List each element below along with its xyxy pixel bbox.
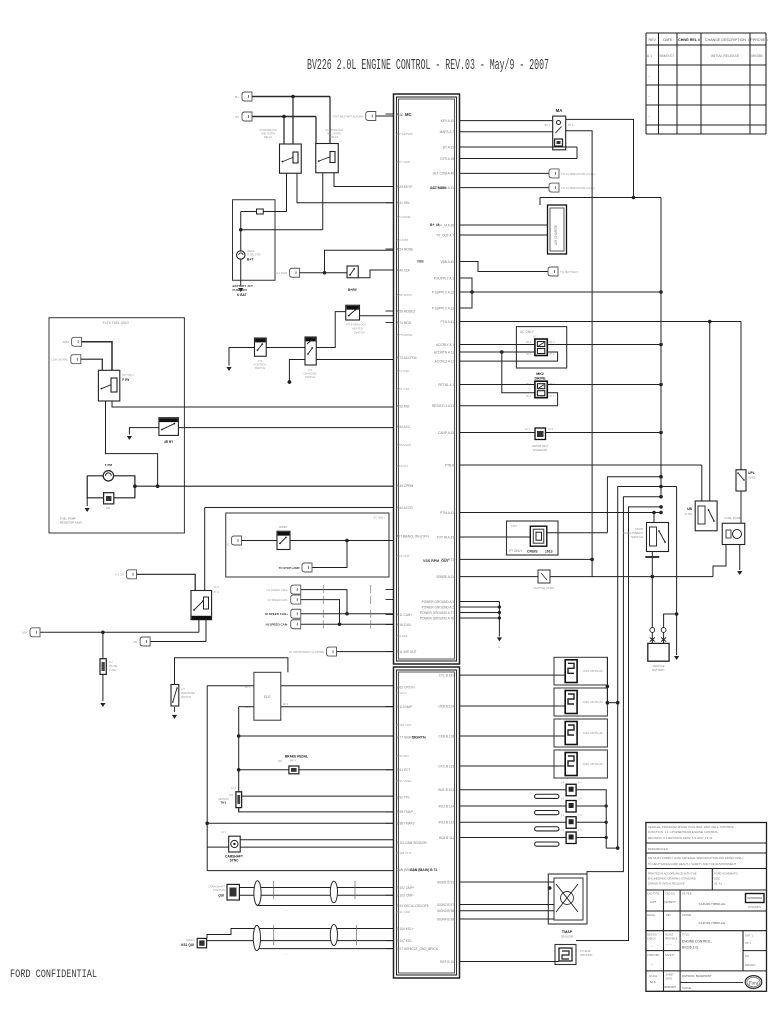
svg-text:CAD TYPE: CAD TYPE [647, 893, 660, 896]
svg-text:A 29 KEYP: A 29 KEYP [397, 185, 413, 189]
svg-text:12 4: 12 4 [221, 831, 226, 834]
svg-text:TO ALTERNATOR (CH L): TO ALTERNATOR (CH L) [561, 186, 595, 190]
svg-text:A IT BRAKE ON (OFF): A IT BRAKE ON (OFF) [397, 535, 429, 539]
svg-text:ELE: ELE [264, 695, 271, 699]
svg-text:1013: 1013 [545, 550, 553, 554]
svg-text:SIGN4 B 99: SIGN4 B 99 [437, 917, 454, 921]
svg-text:FRAME:: FRAME: [682, 986, 692, 990]
svg-text:B 91 OSCILLOSCOPE: B 91 OSCILLOSCOPE [397, 904, 429, 908]
svg-text:A 1 SGR: A 1 SGR [276, 271, 287, 275]
svg-text:LO SPEED CAN-: LO SPEED CAN- [267, 598, 288, 602]
svg-text:B 111 CAM SENSOR: B 111 CAM SENSOR [397, 841, 428, 845]
svg-text:A 54 MODE: A 54 MODE [397, 247, 414, 251]
svg-text:SCALE: SCALE [649, 975, 658, 978]
svg-text:B 41 GND: B 41 GND [397, 910, 412, 914]
svg-text:SWITCH: SWITCH [181, 696, 191, 699]
svg-text:B 98 TMAP2: B 98 TMAP2 [397, 822, 415, 826]
svg-text:2 4: 2 4 [578, 814, 582, 817]
svg-text:B 92 TP1: B 92 TP1 [397, 795, 410, 799]
svg-text:P.SUPPLY A 1: P.SUPPLY A 1 [434, 276, 454, 280]
svg-text:REF B 10: REF B 10 [440, 960, 454, 964]
svg-text:MK2: MK2 [536, 372, 544, 376]
svg-text:B 103 CMP-: B 103 CMP- [397, 894, 414, 898]
svg-text:FORD SCHEMATIC: FORD SCHEMATIC [714, 872, 738, 876]
svg-text:COIL ON PLUG: COIL ON PLUG [583, 762, 603, 766]
svg-text:VSS RPM_OUT: VSS RPM_OUT [423, 559, 450, 563]
svg-text:ENGINEERING DRAWING STANDARD: ENGINEERING DRAWING STANDARD [648, 877, 696, 881]
svg-text:-----: ----- [284, 953, 288, 956]
svg-text:B 101 CKP: B 101 CKP [397, 723, 412, 727]
svg-text:1 4: 1 4 [559, 748, 563, 752]
svg-text:UB: UB [687, 507, 692, 511]
svg-text:VBB: VBB [417, 260, 424, 264]
svg-text:FUNCTION: 1.1.1 POWERTRAIN EN: FUNCTION: 1.1.1 POWERTRAIN ENGINE CONTRO… [648, 830, 719, 834]
svg-text:P.SUPPLY A 13: P.SUPPLY A 13 [432, 306, 454, 310]
svg-text:12 4: 12 4 [231, 787, 236, 790]
svg-text:SOLENOID: SOLENOID [533, 448, 547, 452]
svg-text:DATE: DATE [666, 978, 673, 981]
svg-text:AC: AC [533, 335, 537, 339]
svg-text:SHT 1: SHT 1 [745, 934, 753, 938]
svg-text:CHECK: CHECK [647, 938, 656, 941]
svg-text:1 4: 1 4 [561, 814, 565, 817]
svg-text:NTS: NTS [650, 980, 656, 984]
svg-text:CHECKED: CHECKED [647, 954, 659, 957]
svg-text:LAB: LAB [22, 631, 27, 635]
svg-text:BRAKE PEDAL: BRAKE PEDAL [285, 755, 308, 759]
svg-text:MAPS A 7: MAPS A 7 [440, 130, 455, 134]
svg-text:FLEX FUEL ONLY: FLEX FUEL ONLY [103, 321, 130, 325]
svg-text:A 52 KS1: A 52 KS1 [397, 404, 411, 408]
svg-text:ACCRL2 A 11: ACCRL2 A 11 [435, 359, 455, 363]
svg-text:DTR A 15: DTR A 15 [440, 157, 454, 161]
svg-text:B 12 IN: B 12 IN [397, 691, 407, 695]
svg-text:TO ALTERNATOR (CH L): TO ALTERNATOR (CH L) [561, 172, 595, 176]
svg-text:SIGN3 B 98: SIGN3 B 98 [437, 909, 454, 913]
svg-text:4*4: 4*4 [308, 368, 312, 372]
svg-text:PROVINCE: PROVINCE [665, 938, 678, 941]
svg-text:A 35 EVAP: A 35 EVAP [397, 443, 412, 447]
svg-text:RESISTL1 A 11: RESISTL1 A 11 [432, 404, 454, 408]
svg-text:15 RADIUS: 15 RADIUS [748, 906, 761, 909]
svg-text:RELAY: RELAY [264, 135, 273, 139]
svg-text:B 61 ECT: B 61 ECT [397, 768, 411, 772]
svg-text:SWITCH: SWITCH [305, 375, 315, 379]
svg-text:PTB A: PTB A [445, 463, 455, 467]
svg-text:AIR CHARGE: AIR CHARGE [554, 225, 558, 245]
svg-text:TO BATTERY: TO BATTERY [560, 270, 579, 274]
svg-text:--: -- [648, 74, 650, 78]
svg-text:A 54 ACC: A 54 ACC [397, 425, 412, 429]
svg-text:AE FILE:: AE FILE: [682, 892, 693, 896]
svg-text:INJ3 B 112: INJ3 B 112 [438, 821, 454, 825]
svg-text:ST: ST [235, 115, 239, 119]
svg-text:SC ONLY: SC ONLY [373, 516, 385, 520]
svg-text:BATTERY: BATTERY [652, 668, 665, 672]
svg-text:TH1: TH1 [220, 801, 226, 805]
svg-text:F RY: F RY [122, 378, 130, 382]
svg-text:FORD CONFIDENTIAL: FORD CONFIDENTIAL [10, 969, 97, 981]
svg-text:A 12: A 12 [397, 112, 404, 116]
svg-text:A 13 ROM: A 13 ROM [397, 215, 411, 219]
svg-text:B+: B+ [235, 95, 239, 99]
svg-text:B 102 CMP+: B 102 CMP+ [397, 886, 415, 890]
svg-text:A 75 MODE: A 75 MODE [397, 333, 413, 337]
svg-text:MC: MC [405, 112, 412, 117]
svg-text:NOTEVT: NOTEVT [665, 900, 677, 904]
svg-text:CAD LVL: CAD LVL [665, 893, 676, 896]
svg-text:FUSE: FUSE [109, 668, 116, 672]
svg-text:U BAT: U BAT [237, 293, 247, 297]
svg-text:-----: ----- [284, 909, 288, 912]
svg-text:1 4: 1 4 [561, 798, 565, 801]
svg-text:1 4: 1 4 [559, 655, 563, 659]
svg-text:B 64 SIG: B 64 SIG [397, 754, 410, 758]
svg-text:--: -- [648, 114, 650, 118]
svg-text:B 62 CPS IN: B 62 CPS IN [397, 685, 416, 689]
svg-text:B 33 VREF: B 33 VREF [397, 779, 412, 783]
svg-text:B 97 VEHICLE_GND_BRICK: B 97 VEHICLE_GND_BRICK [397, 947, 439, 951]
svg-text:KS1 QUI: KS1 QUI [181, 943, 194, 947]
svg-text:B+_M A 30: B+_M A 30 [438, 223, 454, 227]
svg-text:2 4: 2 4 [578, 829, 582, 832]
svg-text:SIGN1 B 91: SIGN1 B 91 [437, 880, 454, 884]
svg-text:POWER GROUND A 77: POWER GROUND A 77 [420, 611, 454, 615]
svg-text:A 55 SCCS: A 55 SCCS [397, 293, 412, 297]
svg-text:RELAY: RELAY [330, 135, 339, 139]
svg-text:12 4: 12 4 [525, 427, 531, 431]
svg-text:COIL ON PLUG: COIL ON PLUG [583, 731, 603, 735]
svg-text:CHANGED: CHANGED [304, 372, 317, 376]
svg-text:30 4: 30 4 [526, 395, 531, 398]
svg-text:INJ2 B 114: INJ2 B 114 [438, 804, 454, 808]
svg-text:FPM: FPM [63, 340, 70, 344]
svg-text:2 4: 2 4 [578, 781, 582, 784]
svg-text:DT A 13: DT A 13 [443, 145, 455, 149]
svg-text:CHANGE DESCRIPTION: CHANGE DESCRIPTION [705, 38, 746, 42]
svg-text:BV226 2.0L ENGINE CONTROL - RE: BV226 2.0L ENGINE CONTROL - REV.03 - May… [307, 58, 549, 74]
svg-text:1 4: 1 4 [561, 781, 565, 784]
svg-text:9/MAY/07: 9/MAY/07 [660, 54, 675, 58]
svg-text:MA: MA [556, 108, 564, 113]
svg-text:SIGN2 B 97: SIGN2 B 97 [437, 903, 454, 907]
svg-text:B 99 TMAP: B 99 TMAP [397, 810, 413, 814]
svg-text:A 51 KS2: A 51 KS2 [397, 387, 410, 391]
svg-text:SC: SC [226, 543, 230, 547]
svg-text:WE MUST COMPLY WITH MATERIAL S: WE MUST COMPLY WITH MATERIAL SPECIFICATI… [648, 856, 744, 860]
svg-text:SYNC: SYNC [230, 859, 240, 863]
svg-text:VEHICLE_PROGRAM: BV226 TO: VEHICLE_PROGRAM: BV226 TOOL BAR: 2007 CE… [648, 825, 735, 829]
svg-text:B 107 KS1-: B 107 KS1- [397, 939, 413, 943]
svg-text:FRA EL: FRA EL [647, 914, 656, 917]
svg-text:A 56 MODE2: A 56 MODE2 [397, 309, 416, 313]
svg-text:85 4: 85 4 [526, 341, 531, 344]
svg-text:REVISION: A 1 REVISION DA: REVISION: A 1 REVISION DATE: 5-9-2007_13… [648, 836, 713, 840]
svg-text:OF 1: OF 1 [745, 941, 752, 945]
svg-text:FUSEBOX: FUSEBOX [233, 288, 248, 292]
svg-text:IAT: IAT [229, 793, 233, 797]
svg-text:APPROVED: APPROVED [748, 38, 768, 42]
svg-text:3-PT: 3-PT [650, 900, 656, 904]
svg-text:A 74 MOD: A 74 MOD [397, 321, 412, 325]
svg-text:HI SPEED CAN+: HI SPEED CAN+ [265, 612, 288, 616]
svg-text:1 4: 1 4 [559, 717, 563, 721]
svg-text:CAN (MAIN) B 73: CAN (MAIN) B 73 [410, 868, 437, 872]
svg-text:A 73 ACCPD4: A 73 ACCPD4 [397, 356, 417, 360]
svg-text:DESIGN: DESIGN [647, 934, 657, 937]
svg-text:B+T: B+T [247, 258, 254, 262]
svg-text:A 2 KAPWR: A 2 KAPWR [397, 132, 414, 136]
svg-text:87 4: 87 4 [214, 590, 220, 594]
svg-text:A 4 REF: A 4 REF [397, 634, 408, 638]
svg-text:SIZE: SIZE [714, 877, 720, 881]
svg-text:TMAP: TMAP [562, 930, 573, 934]
svg-text:B+_M: B+_M [430, 223, 439, 227]
svg-text:LOW SIGNAL: LOW SIGNAL [51, 358, 68, 362]
svg-text:B 110 MAP: B 110 MAP [397, 705, 413, 709]
svg-text:B 108 OUT: B 108 OUT [397, 851, 412, 855]
svg-text:SCALE: SCALE [665, 934, 674, 937]
svg-text:TX_OUT A 7: TX_OUT A 7 [436, 233, 454, 237]
svg-text:F PM: F PM [105, 463, 113, 467]
svg-text:4R RY: 4R RY [164, 440, 174, 444]
svg-text:CHNG REL #: CHNG REL # [678, 38, 700, 42]
svg-text:GROUND: GROUND [580, 953, 592, 957]
svg-text:POWER GROUND A 3: POWER GROUND A 3 [422, 600, 455, 604]
svg-text:30 4: 30 4 [214, 585, 220, 589]
svg-text:VBB A 41: VBB A 41 [441, 260, 455, 264]
svg-text:PT ONLY: PT ONLY [509, 549, 523, 553]
svg-text:P.SUPPLY A 12: P.SUPPLY A 12 [432, 290, 454, 294]
svg-text:REV: REV [666, 914, 671, 917]
svg-text:G: G [498, 645, 500, 649]
svg-text:MKB86: MKB86 [751, 54, 762, 58]
svg-text:COIL ON PLUG: COIL ON PLUG [583, 669, 603, 673]
svg-text:A.1: A.1 [647, 54, 652, 58]
svg-text:A 3 FPM: A 3 FPM [397, 238, 409, 242]
svg-text:B+RY: B+RY [348, 288, 358, 292]
svg-text:CONTROL: CONTROL [254, 363, 267, 367]
svg-text:FUSE 175A: FUSE 175A [247, 253, 261, 257]
svg-text:86 4: 86 4 [550, 341, 555, 344]
svg-text:SPEED: SPEED [279, 525, 288, 529]
svg-text:ENGINE CONTROL,: ENGINE CONTROL, [682, 940, 712, 944]
svg-text:B 104 KS1+: B 104 KS1+ [397, 927, 414, 931]
svg-text:TO STOP LAMP: TO STOP LAMP [279, 566, 300, 570]
svg-text:INJ4 B 111: INJ4 B 111 [439, 836, 455, 840]
svg-text:PTN A 41: PTN A 41 [441, 320, 455, 324]
svg-text:UPL: UPL [748, 471, 755, 475]
svg-text:CANP A 43: CANP A 43 [438, 431, 454, 435]
svg-text:DRAWN AT INITIAL RELEASE: DRAWN AT INITIAL RELEASE [648, 882, 685, 886]
svg-text:A 44 ACCR: A 44 ACCR [397, 506, 414, 510]
svg-text:34 4: 34 4 [548, 427, 554, 431]
svg-text:INITIAL RELEASE: INITIAL RELEASE [711, 54, 740, 58]
svg-text:2 4: 2 4 [578, 798, 582, 801]
svg-text:DATE: DATE [663, 38, 673, 42]
svg-text:HC: HC [106, 506, 110, 510]
svg-text:A 16 CAN-: A 16 CAN- [397, 623, 412, 627]
svg-text:A 11 INS OUT: A 11 INS OUT [397, 650, 417, 654]
svg-text:AND INTRN: AND INTRN [327, 132, 341, 136]
svg-text:RESISTOR ASSY: RESISTOR ASSY [60, 521, 82, 525]
svg-text:REV: REV [649, 38, 657, 42]
svg-text:SIGRTN: SIGRTN [412, 736, 426, 740]
svg-text:1 4: 1 4 [561, 829, 565, 832]
svg-text:ACCRLY A 1: ACCRLY A 1 [436, 343, 454, 347]
svg-text:KNOCK: KNOCK [186, 939, 195, 942]
svg-text:CKB B 118: CKB B 118 [438, 734, 454, 738]
svg-text:A 41 IGN: A 41 IGN [397, 201, 411, 205]
svg-text:POWER GROUND A 2: POWER GROUND A 2 [422, 605, 455, 609]
svg-text:A C: A C [181, 688, 185, 691]
svg-text:MEGA: MEGA [247, 249, 255, 253]
svg-text:SW: SW [278, 759, 283, 763]
svg-text:DRIVE: DRIVE [535, 377, 547, 381]
svg-text:PRESSURE: PRESSURE [181, 692, 195, 695]
svg-text:LO SPEED CAN+: LO SPEED CAN+ [267, 588, 289, 592]
svg-text:A 11 CAN+: A 11 CAN+ [397, 613, 413, 617]
svg-text:CKB B 124: CKB B 124 [438, 704, 454, 708]
svg-text:PTM A 41: PTM A 41 [440, 511, 454, 515]
svg-text:87 4: 87 4 [568, 123, 574, 127]
svg-text:---------: --------- [665, 943, 672, 946]
svg-text:REFERENCES:: REFERENCES: [648, 847, 669, 851]
svg-text:87 4: 87 4 [550, 395, 555, 398]
svg-text:ACDRTN A 11: ACDRTN A 11 [434, 350, 454, 354]
svg-text:4*4: 4*4 [258, 359, 262, 363]
svg-text:SHEET: SHEET [666, 974, 675, 977]
svg-text:ALT COM A 40: ALT COM A 40 [433, 172, 454, 176]
svg-text:HEATED: HEATED [352, 327, 363, 331]
svg-text:CRUIS: CRUIS [527, 550, 538, 554]
svg-text:ACT MON: ACT MON [430, 186, 446, 190]
svg-text:RETN1 A 1: RETN1 A 1 [438, 383, 454, 387]
svg-text:HI SPEED CAN-: HI SPEED CAN- [266, 623, 288, 627]
svg-text:FUSE: FUSE [685, 512, 692, 516]
svg-text:1 4: 1 4 [559, 686, 563, 690]
svg-text:COIL ON PLUG: COIL ON PLUG [583, 700, 603, 704]
svg-text:MK 4: MK 4 [290, 759, 297, 763]
svg-text:CKC B 115: CKC B 115 [438, 764, 454, 768]
svg-text:TO HELP SAFEGUARD HEALTH, SAFE: TO HELP SAFEGUARD HEALTH, SAFETY AND THE… [648, 862, 737, 866]
svg-text:QUI: QUI [218, 894, 224, 898]
svg-text:30 4: 30 4 [545, 123, 551, 127]
svg-text:--: -- [648, 94, 650, 98]
svg-text:A2- A1: A2- A1 [714, 882, 723, 886]
svg-text:DIVISION: BLUEPRINT: DIVISION: BLUEPRINT [682, 974, 712, 978]
svg-text:POSITION: POSITION [213, 889, 225, 892]
svg-text:SENSOR: SENSOR [561, 935, 575, 939]
svg-text:C14N15-T9550-AG: C14N15-T9550-AG [699, 902, 726, 906]
svg-text:TOT: TOT [511, 524, 517, 528]
svg-text:PRINTED IN ACCORDANCE WITH THE: PRINTED IN ACCORDANCE WITH THE [648, 872, 697, 876]
svg-text:--: -- [651, 962, 653, 966]
svg-text:CLUTCH_INTLK: CLUTCH_INTLK [534, 586, 555, 590]
svg-text:KEY A 10: KEY A 10 [441, 119, 455, 123]
svg-text:BV226 2.0L: BV226 2.0L [682, 946, 699, 950]
svg-text:TOT IN A 33: TOT IN A 33 [437, 535, 455, 539]
svg-text:AC ONLY: AC ONLY [520, 330, 535, 334]
svg-text:FUSE: FUSE [748, 476, 756, 480]
svg-text:TO INSTRUMENT CLUSTER: TO INSTRUMENT CLUSTER [289, 650, 324, 654]
svg-text:A 1 GA: A 1 GA [115, 573, 124, 577]
svg-text:CYL B 121: CYL B 121 [439, 673, 455, 677]
svg-text:TITLE:: TITLE: [682, 933, 690, 937]
svg-text:A 17 PSP: A 17 PSP [397, 369, 410, 373]
svg-text:Ford: Ford [748, 982, 759, 987]
svg-text:87 4: 87 4 [550, 353, 555, 356]
svg-text:SAFETY: SAFETY [665, 954, 675, 957]
svg-text:--: -- [651, 944, 653, 948]
svg-text:SWITCH: SWITCH [255, 366, 265, 370]
svg-text:30 4: 30 4 [526, 353, 531, 356]
svg-text:STARTER/IGN: STARTER/IGN [259, 128, 276, 132]
svg-text:C14N15-T9550-AG: C14N15-T9550-AG [699, 921, 726, 925]
svg-text:AB: AB [133, 640, 137, 644]
svg-text:A 1: A 1 [109, 660, 113, 664]
svg-text:FRAME:: FRAME: [682, 913, 692, 917]
svg-text:A 21 OUT: A 21 OUT [397, 554, 410, 558]
svg-text:A 40 CDF: A 40 CDF [397, 268, 411, 272]
svg-text:STAT RESTART ALTERN: STAT RESTART ALTERN [333, 114, 363, 118]
svg-text:09/05/2007: 09/05/2007 [664, 986, 677, 989]
svg-text:SPARE A 21: SPARE A 21 [436, 575, 454, 579]
svg-text:AND INTRN: AND INTRN [261, 132, 275, 136]
svg-text:INLINE: INLINE [109, 664, 118, 668]
svg-text:DRAWN: DRAWN [745, 963, 755, 967]
svg-text:SWITCH: SWITCH [354, 331, 365, 335]
svg-text:A 16 INJ: A 16 INJ [397, 464, 409, 468]
svg-text:NA: NA [745, 954, 749, 958]
svg-text:4*4 INTERLOCK: 4*4 INTERLOCK [346, 323, 366, 327]
svg-text:INJ1 B 121: INJ1 B 121 [438, 788, 454, 792]
svg-text:A 34 CPRM: A 34 CPRM [397, 484, 414, 488]
svg-text:SWITCH: SWITCH [631, 535, 643, 539]
svg-text:32 4: 32 4 [283, 702, 289, 706]
svg-text:A 27 GND: A 27 GND [397, 160, 411, 164]
svg-text:INT ONLY: INT ONLY [122, 373, 134, 377]
svg-text:FUEL PUMP: FUEL PUMP [724, 516, 741, 520]
svg-text:STARTER/IGN: STARTER/IGN [325, 128, 342, 132]
svg-text:POWER GROUND A 76: POWER GROUND A 76 [420, 616, 454, 620]
